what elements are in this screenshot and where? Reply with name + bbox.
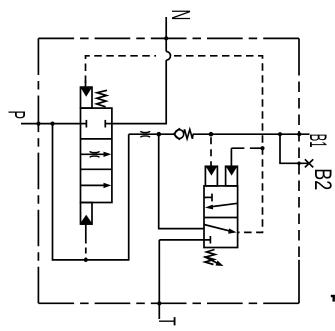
wire main pressure line to check valve <box>129 133 174 135</box>
wire check valve to B1 <box>193 133 310 135</box>
node B2 frame crossing <box>297 162 301 166</box>
V2 spring adjust arrow <box>204 257 220 265</box>
hop over pilot line <box>166 52 170 61</box>
wire P branch down and across bottom <box>53 124 129 260</box>
V1 bottom pilot box <box>81 203 93 225</box>
svg-text:B1: B1 <box>304 134 331 148</box>
V2 spring arrowhead <box>216 261 224 267</box>
enclosure frame right edge lower solid run <box>298 260 300 304</box>
V1 bottom pilot triangle <box>80 215 93 224</box>
enclosure frame right edge dashed run <box>298 76 300 260</box>
pilot line continued after hop gap <box>174 56 263 233</box>
V1 top position blocked port left <box>81 123 87 125</box>
node right pilot junction <box>260 146 264 150</box>
valve V1 body (left 3-position valve) <box>81 108 112 202</box>
V2 bottom blocked port <box>209 236 211 244</box>
wire N line lower, to valve right port <box>112 60 166 124</box>
enclosure frame bottom edge <box>38 302 299 304</box>
svg-text:B2: B2 <box>309 168 335 190</box>
node N frame crossing <box>164 36 168 40</box>
V2 right pilot box <box>226 166 238 186</box>
V2 top position blocked port <box>204 196 212 198</box>
V1 divider lower <box>81 168 112 170</box>
wire pilot stub above left valve triangle <box>85 80 87 88</box>
V2 bottom position diagonal arrow <box>204 225 232 232</box>
V2 left pilot box <box>205 166 217 186</box>
node P frame crossing <box>36 122 40 126</box>
orifice restrictor on main line <box>140 131 150 132</box>
pilot line right valve right pilot branch <box>231 147 262 149</box>
right valve V2 body <box>204 186 238 248</box>
pilot line to right valve left pilot (dashed) <box>210 134 212 166</box>
V2 left pilot triangle <box>206 167 217 176</box>
V2 top position diagonal arrow <box>209 203 238 207</box>
V1 middle position arrow <box>81 153 105 155</box>
enclosure frame left edge <box>37 38 39 303</box>
V2 right pilot triangle <box>226 167 237 176</box>
V1 spring <box>97 90 107 107</box>
V2 bottom arrowhead <box>228 228 236 233</box>
node feed junction <box>157 132 162 137</box>
node B branch <box>278 132 282 136</box>
check valve CV1 <box>174 128 193 140</box>
wire B2 branch <box>280 134 308 163</box>
node bottom pilot junction <box>84 258 88 262</box>
V2 divider <box>204 217 238 219</box>
wire right pilot drop <box>230 148 232 166</box>
node T frame crossing <box>157 301 161 305</box>
enclosure frame top edge <box>38 37 299 39</box>
plug X at B2 <box>305 159 313 167</box>
wire T drain line <box>158 240 160 319</box>
node left pilot junction <box>209 132 214 137</box>
V1 middle position orifice <box>90 151 100 152</box>
wire feed line to right valve left port <box>159 134 204 228</box>
svg-text:T: T <box>153 317 180 326</box>
svg-text:P: P <box>3 111 30 120</box>
svg-text:N: N <box>166 9 196 20</box>
enclosure frame right edge upper solid run <box>298 38 300 75</box>
wire N line upper <box>165 17 167 52</box>
V2 top arrowhead <box>205 205 213 210</box>
pilot line (long dashed path from left valve top pilot to right valve) <box>86 56 157 83</box>
V2 spring <box>205 250 215 265</box>
V1 divider upper <box>81 138 112 140</box>
node B1 frame crossing <box>297 132 301 136</box>
wire stub into right valve blocked port <box>159 239 211 241</box>
V1 top position blocked port right <box>105 123 112 125</box>
V1 bottom arrowhead <box>104 183 112 188</box>
V1 middle arrowhead <box>104 152 112 157</box>
V1 bottom position arrow <box>81 184 105 186</box>
V1 top pilot box <box>81 87 93 108</box>
wire P line <box>21 123 81 125</box>
pilot line from left valve bottom pilot (dashed down to P branch) <box>85 224 87 237</box>
node P branch <box>50 122 54 126</box>
V1 top pilot triangle <box>81 88 92 97</box>
edge mark fragment (cut-off glyph at right edge) <box>331 295 335 297</box>
